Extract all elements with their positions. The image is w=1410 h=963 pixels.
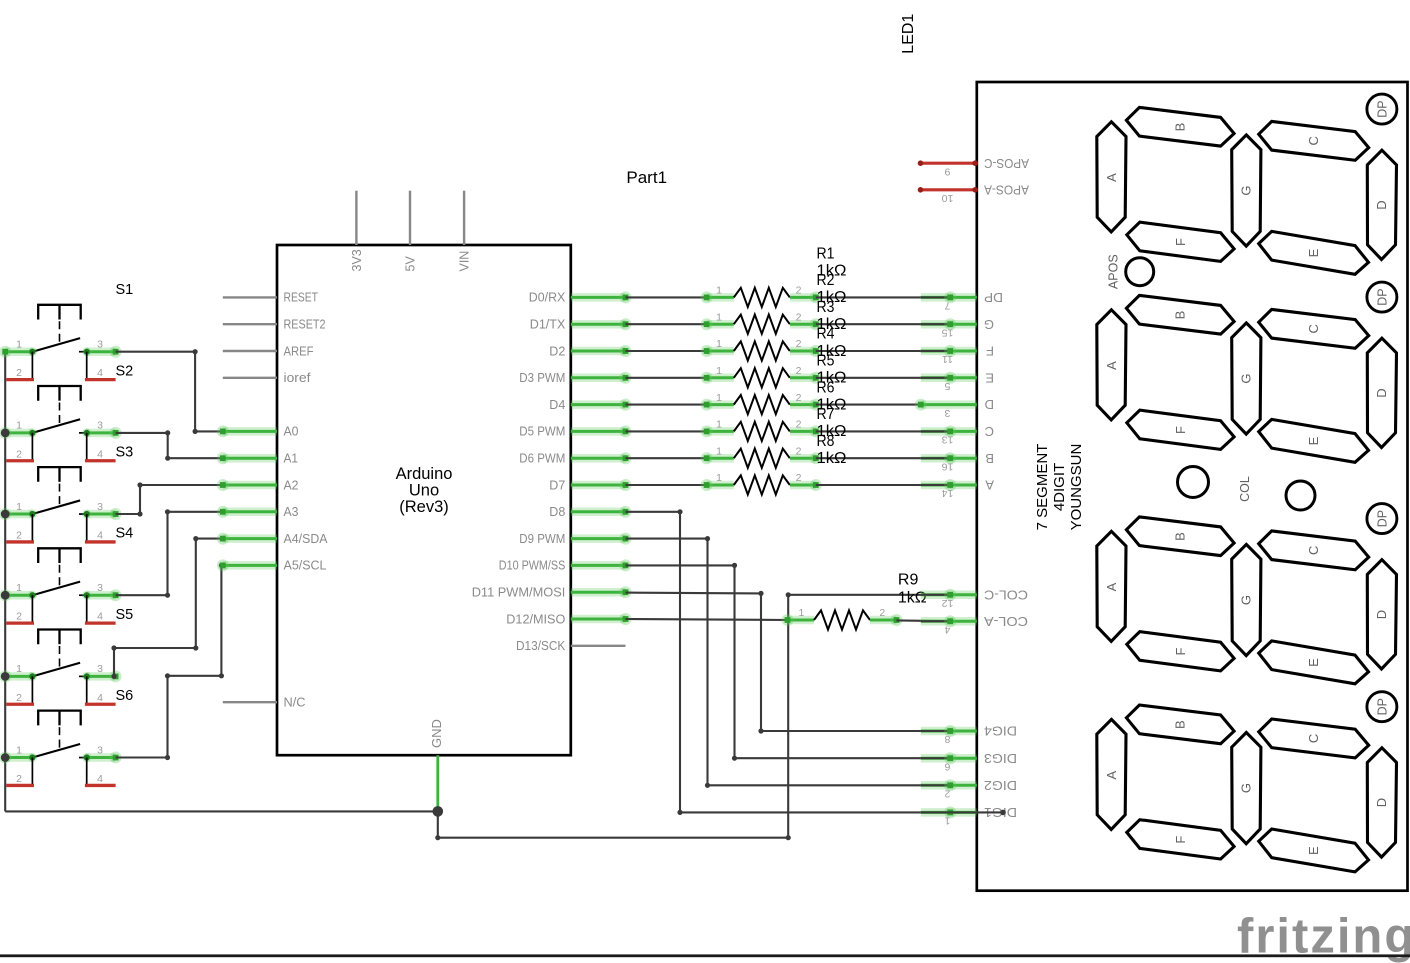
svg-text:DIG2: DIG2: [984, 778, 1017, 793]
svg-text:4: 4: [944, 623, 950, 635]
svg-text:Arduino: Arduino: [396, 465, 453, 483]
wire D8 to DIG1: [626, 509, 1006, 815]
pushbutton switch S4: [0, 548, 122, 623]
wire D5 to R6: [626, 430, 707, 432]
pin D12/MISO: [506, 611, 631, 626]
svg-text:COL: COL: [1238, 476, 1252, 502]
7-segment 4-digit display LED1: [915, 82, 1408, 891]
wire GND net (Arduino GND to rail and COL-C): [435, 595, 791, 841]
svg-text:DIG4: DIG4: [984, 724, 1017, 739]
svg-text:A0: A0: [284, 424, 299, 439]
pin D6 PWM: [519, 451, 631, 466]
svg-text:2: 2: [16, 448, 22, 460]
svg-text:3: 3: [944, 407, 950, 419]
pin COL-A: [921, 614, 1028, 636]
svg-text:4: 4: [97, 692, 103, 704]
svg-text:4: 4: [97, 530, 103, 542]
svg-text:3: 3: [97, 744, 103, 756]
pin A3: [217, 504, 299, 519]
pin A4/SDA: [217, 531, 328, 546]
svg-text:A1: A1: [284, 451, 299, 466]
pin A2: [217, 477, 299, 492]
svg-text:R5: R5: [817, 353, 835, 370]
wire D4 to R5: [626, 404, 707, 406]
wire D11 to DIG4: [626, 591, 951, 734]
svg-text:Uno: Uno: [409, 482, 439, 500]
wire D10 to DIG3: [626, 563, 951, 761]
pin D10 PWM/SS: [499, 558, 632, 573]
pin D1/TX: [530, 317, 632, 332]
resistor R2 1k&#937;: [701, 311, 822, 333]
svg-text:1: 1: [716, 311, 722, 323]
pin DIG2: [921, 778, 1017, 800]
wire R1 to LED DP: [816, 296, 950, 298]
resistor R1 1k&#937;: [701, 285, 822, 307]
pin A0: [217, 424, 299, 439]
APOS indicator: [1107, 254, 1154, 289]
svg-text:Part1: Part1: [626, 168, 667, 187]
svg-text:E: E: [985, 370, 994, 385]
svg-text:S4: S4: [116, 526, 134, 542]
svg-text:D12/MISO: D12/MISO: [506, 611, 565, 626]
svg-text:A4/SDA: A4/SDA: [284, 531, 328, 546]
wire R7 to LED B: [816, 457, 950, 459]
svg-text:D2: D2: [549, 343, 565, 358]
svg-text:16: 16: [942, 460, 954, 472]
wire R3 to LED F: [816, 350, 950, 352]
svg-text:2: 2: [796, 392, 802, 404]
svg-text:1: 1: [16, 582, 22, 594]
svg-text:COL-A: COL-A: [984, 614, 1028, 629]
svg-text:APOS: APOS: [1107, 254, 1121, 289]
svg-text:1: 1: [798, 607, 804, 619]
svg-text:APOS-A: APOS-A: [984, 182, 1029, 197]
pin VIN: [458, 191, 472, 272]
svg-text:A5/SCL: A5/SCL: [284, 558, 327, 573]
svg-text:(Rev3): (Rev3): [399, 498, 449, 516]
wire D9 to DIG2: [626, 536, 951, 788]
svg-text:1: 1: [716, 445, 722, 457]
svg-text:14: 14: [942, 487, 954, 499]
svg-text:D11 PWM/MOSI: D11 PWM/MOSI: [472, 585, 566, 600]
wire R4 to LED E: [816, 377, 950, 379]
svg-text:1: 1: [716, 285, 722, 297]
svg-text:4: 4: [97, 773, 103, 785]
bottom border line: [0, 954, 1410, 957]
svg-text:DP: DP: [984, 290, 1003, 305]
svg-text:D5 PWM: D5 PWM: [519, 424, 565, 439]
Arduino Uno Part1: [217, 191, 632, 811]
wire R2 to LED G: [816, 323, 950, 325]
resistor R7 1k&#937;: [701, 445, 822, 467]
pin D2: [549, 343, 631, 358]
svg-text:2: 2: [16, 692, 22, 704]
wire R6 to LED C: [816, 430, 950, 432]
svg-text:G: G: [984, 317, 994, 332]
svg-text:LED1: LED1: [900, 14, 917, 54]
wire S3 pin3 to A2: [116, 482, 223, 516]
svg-text:ioref: ioref: [284, 370, 311, 385]
svg-text:1: 1: [716, 472, 722, 484]
svg-text:1: 1: [716, 419, 722, 431]
svg-text:GND: GND: [429, 719, 444, 748]
resistor R8 1k&#937;: [701, 472, 822, 494]
svg-text:AREF: AREF: [284, 343, 314, 358]
pin DP: [921, 290, 1003, 312]
svg-text:S5: S5: [116, 607, 134, 623]
svg-text:APOS-C: APOS-C: [984, 156, 1029, 171]
svg-text:7: 7: [944, 300, 950, 312]
pushbutton switch S5: [0, 629, 122, 704]
svg-text:R1: R1: [817, 245, 835, 262]
svg-text:4: 4: [97, 448, 103, 460]
wire D0 to R1: [626, 296, 707, 298]
resistor R9 1k&#937;: [782, 607, 903, 629]
pushbutton switch S2: [0, 386, 122, 461]
pushbutton switch S3: [0, 467, 122, 542]
svg-text:R4: R4: [817, 326, 835, 343]
LED1 digit 2: [1097, 282, 1397, 462]
svg-text:A3: A3: [284, 504, 299, 519]
svg-text:5: 5: [944, 380, 950, 392]
svg-text:D0/RX: D0/RX: [529, 290, 566, 305]
svg-text:2: 2: [16, 530, 22, 542]
svg-text:3V3: 3V3: [350, 249, 364, 271]
wire S2 pin3 to A1: [116, 430, 223, 461]
svg-text:3: 3: [97, 582, 103, 594]
pin N/C: [223, 695, 306, 710]
pin 5V: [403, 191, 417, 272]
pin COL-C: [921, 587, 1028, 609]
svg-text:3: 3: [97, 501, 103, 513]
pin D8: [549, 504, 631, 519]
junction GND: [433, 806, 444, 817]
svg-text:2: 2: [796, 472, 802, 484]
pin C: [921, 424, 994, 446]
pin D5 PWM: [519, 424, 631, 439]
pin F: [921, 344, 994, 366]
svg-text:D6 PWM: D6 PWM: [519, 451, 565, 466]
pin ioref: [223, 370, 311, 385]
pin AREF: [223, 343, 314, 358]
svg-text:1kΩ: 1kΩ: [817, 450, 847, 467]
pin GND: [429, 719, 444, 811]
svg-text:4DIGIT: 4DIGIT: [1051, 463, 1068, 511]
wire D3 to R4: [626, 377, 707, 379]
svg-text:2: 2: [879, 607, 885, 619]
svg-text:2: 2: [16, 367, 22, 379]
svg-text:COL-C: COL-C: [984, 587, 1028, 602]
svg-text:3: 3: [97, 663, 103, 675]
svg-text:1: 1: [716, 338, 722, 350]
svg-text:2: 2: [796, 365, 802, 377]
wire S4 pin3 to A3: [116, 509, 223, 598]
svg-text:1: 1: [16, 663, 22, 675]
svg-text:R9: R9: [898, 572, 919, 589]
svg-text:2: 2: [796, 338, 802, 350]
svg-text:D10 PWM/SS: D10 PWM/SS: [499, 558, 566, 573]
svg-text:4: 4: [97, 367, 103, 379]
svg-text:R7: R7: [817, 406, 835, 423]
svg-text:RESET: RESET: [284, 290, 319, 305]
pushbutton switch S1: [0, 305, 122, 380]
svg-text:R2: R2: [817, 272, 835, 289]
wire R9 to COL-A: [897, 619, 951, 622]
wire D2 to R3: [626, 350, 707, 352]
svg-text:13: 13: [942, 434, 954, 446]
svg-text:3: 3: [97, 420, 103, 432]
svg-text:2: 2: [16, 611, 22, 623]
svg-text:2: 2: [944, 788, 950, 800]
svg-text:D8: D8: [549, 504, 565, 519]
COL indicator: [1178, 467, 1316, 511]
svg-text:2: 2: [16, 773, 22, 785]
wire D7 to R8: [626, 484, 707, 486]
svg-text:5V: 5V: [403, 256, 417, 272]
wire S1 pin3 to A0: [116, 349, 223, 434]
ground rail (left bus from switches to GND): [5, 352, 438, 812]
svg-text:R6: R6: [817, 379, 835, 396]
pin RESET2: [223, 317, 326, 332]
svg-text:F: F: [986, 344, 994, 359]
svg-text:2: 2: [796, 285, 802, 297]
wire S6 pin3 to A5/SCL: [116, 563, 224, 760]
wire D1 to R2: [626, 323, 707, 325]
svg-text:1: 1: [16, 339, 22, 351]
svg-text:11: 11: [942, 353, 953, 365]
pin APOS-A: [918, 182, 1029, 204]
svg-text:1: 1: [16, 420, 22, 432]
svg-text:D3 PWM: D3 PWM: [519, 370, 565, 385]
svg-text:VIN: VIN: [458, 251, 472, 272]
pin D13/SCK: [516, 638, 626, 653]
pin D7: [549, 477, 631, 492]
svg-text:1: 1: [16, 501, 22, 513]
pin B: [921, 451, 994, 473]
svg-text:DIG3: DIG3: [984, 751, 1017, 766]
pin D9 PWM: [519, 531, 631, 546]
svg-text:1: 1: [716, 392, 722, 404]
pin A1: [217, 451, 298, 466]
svg-text:3: 3: [97, 339, 103, 351]
LED1 digit 3: [1097, 504, 1397, 684]
resistor R5 1k&#937;: [701, 392, 822, 414]
pin D: [915, 397, 994, 419]
svg-text:S1: S1: [116, 282, 134, 298]
svg-text:1: 1: [944, 815, 950, 827]
svg-text:B: B: [985, 451, 994, 466]
svg-text:1: 1: [16, 744, 22, 756]
resistor R3 1k&#937;: [701, 338, 822, 360]
svg-text:4: 4: [97, 611, 103, 623]
pin DIG4: [921, 724, 1017, 746]
wire R8 to LED A: [816, 484, 950, 486]
svg-text:2: 2: [796, 311, 802, 323]
pin RESET: [223, 290, 318, 305]
pin 3V3: [350, 191, 364, 272]
pin DIG3: [921, 751, 1017, 773]
pin A: [921, 478, 994, 500]
LED1 digit 4: [1097, 692, 1397, 872]
svg-text:D: D: [985, 397, 994, 412]
svg-text:2: 2: [796, 419, 802, 431]
pin D3 PWM: [519, 370, 631, 385]
svg-text:15: 15: [942, 326, 954, 338]
svg-text:10: 10: [942, 192, 954, 204]
pin A5/SCL: [217, 558, 327, 573]
svg-text:D7: D7: [549, 477, 565, 492]
wire D8 overshoot at DIG1: [921, 811, 1003, 813]
svg-text:YOUNGSUN: YOUNGSUN: [1068, 444, 1085, 531]
svg-text:S3: S3: [116, 445, 134, 461]
svg-text:S2: S2: [116, 363, 134, 379]
pin APOS-C: [918, 156, 1029, 178]
svg-text:2: 2: [796, 445, 802, 457]
wire S5 pin3 to A4/SDA: [111, 536, 222, 679]
svg-text:S6: S6: [116, 688, 134, 704]
svg-text:8: 8: [944, 733, 950, 745]
junctions on ground rail: [1, 428, 10, 761]
svg-text:D4: D4: [549, 397, 565, 412]
pin DIG1: [921, 805, 1017, 827]
svg-text:7 SEGMENT: 7 SEGMENT: [1034, 444, 1051, 531]
pushbutton switch S6: [0, 711, 122, 786]
svg-text:1: 1: [716, 365, 722, 377]
pin G: [921, 317, 994, 339]
pin E: [921, 370, 994, 392]
svg-text:A: A: [985, 478, 994, 493]
svg-text:12: 12: [942, 597, 954, 609]
resistor R6 1k&#937;: [701, 419, 822, 441]
svg-text:6: 6: [944, 760, 950, 772]
pin D11 PWM/MOSI: [472, 585, 632, 600]
LED1 digit 1: [1097, 94, 1397, 274]
svg-text:D9 PWM: D9 PWM: [519, 531, 565, 546]
pin D4: [549, 397, 631, 412]
svg-text:9: 9: [944, 165, 950, 177]
svg-text:N/C: N/C: [284, 695, 306, 710]
svg-text:D13/SCK: D13/SCK: [516, 638, 566, 653]
pin D0/RX: [529, 290, 632, 305]
wire D12 to R9: [626, 619, 788, 620]
svg-text:R8: R8: [817, 433, 835, 450]
wire R5 to LED D: [816, 404, 921, 406]
wire to COL-C: [786, 592, 951, 597]
svg-text:RESET2: RESET2: [284, 317, 326, 332]
svg-text:D1/TX: D1/TX: [530, 317, 566, 332]
svg-text:R3: R3: [817, 299, 835, 316]
wire D6 to R7: [626, 457, 707, 459]
svg-text:C: C: [985, 424, 994, 439]
svg-text:A2: A2: [284, 477, 299, 492]
resistor R4 1k&#937;: [701, 365, 822, 387]
